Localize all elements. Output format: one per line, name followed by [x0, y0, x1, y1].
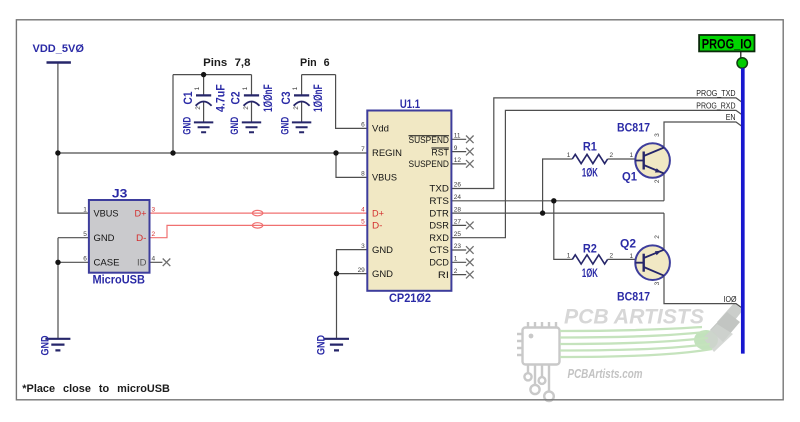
svg-text:GND: GND — [181, 117, 193, 135]
svg-text:Pin 6: Pin 6 — [300, 57, 330, 69]
svg-text:25: 25 — [454, 231, 462, 238]
svg-text:11: 11 — [454, 133, 461, 140]
svg-text:9: 9 — [454, 145, 458, 152]
svg-text:CP21Ø2: CP21Ø2 — [389, 291, 431, 305]
svg-text:12: 12 — [454, 157, 462, 164]
svg-text:1: 1 — [454, 256, 458, 263]
svg-text:26: 26 — [454, 182, 462, 189]
svg-text:C1: C1 — [181, 91, 195, 104]
svg-text:VBUS: VBUS — [94, 208, 119, 218]
svg-text:EN: EN — [726, 112, 736, 122]
svg-text:2: 2 — [609, 253, 613, 260]
svg-text:27: 27 — [454, 219, 462, 226]
svg-text:REGIN: REGIN — [372, 148, 402, 158]
svg-text:TXD: TXD — [429, 184, 449, 194]
svg-text:PCBArtists.com: PCBArtists.com — [568, 367, 643, 381]
svg-text:6: 6 — [83, 256, 87, 263]
svg-text:RI: RI — [438, 270, 449, 280]
svg-text:4.7uF: 4.7uF — [213, 84, 227, 112]
svg-text:RST: RST — [431, 147, 449, 157]
svg-text:1: 1 — [194, 86, 201, 90]
svg-text:DSR: DSR — [429, 221, 449, 231]
svg-text:GND: GND — [94, 233, 116, 243]
svg-text:GND: GND — [39, 335, 51, 355]
svg-text:24: 24 — [454, 194, 462, 201]
svg-text:IOØ: IOØ — [724, 294, 737, 304]
svg-text:J3: J3 — [112, 187, 128, 201]
svg-text:*Place close to microUSB: *Place close to microUSB — [22, 383, 170, 395]
svg-text:5: 5 — [83, 231, 87, 238]
svg-text:GND: GND — [316, 335, 328, 355]
svg-text:GND: GND — [229, 117, 241, 135]
svg-text:2: 2 — [654, 179, 661, 183]
svg-text:4: 4 — [152, 256, 156, 263]
svg-text:1: 1 — [567, 253, 571, 260]
svg-text:GND: GND — [372, 269, 394, 279]
svg-text:Pins 7,8: Pins 7,8 — [203, 57, 250, 69]
svg-text:VDD_5VØ: VDD_5VØ — [33, 43, 85, 55]
svg-text:1ØØnF: 1ØØnF — [311, 84, 325, 112]
svg-text:3: 3 — [654, 133, 661, 137]
svg-text:8: 8 — [361, 171, 365, 178]
svg-text:PROG_RXD: PROG_RXD — [696, 100, 735, 110]
svg-text:28: 28 — [454, 206, 462, 213]
svg-text:PROG_TXD: PROG_TXD — [696, 88, 735, 98]
svg-text:6: 6 — [361, 122, 365, 129]
svg-text:PROG_IO: PROG_IO — [702, 36, 752, 52]
svg-text:3: 3 — [654, 281, 661, 285]
svg-text:1: 1 — [567, 152, 571, 159]
svg-text:RTS: RTS — [429, 196, 449, 206]
svg-text:D-: D- — [372, 221, 383, 231]
svg-text:7: 7 — [361, 146, 365, 153]
svg-text:1: 1 — [629, 152, 633, 159]
svg-text:5: 5 — [361, 219, 365, 226]
svg-text:1ØØnF: 1ØØnF — [261, 84, 275, 112]
svg-text:BC817: BC817 — [617, 121, 650, 135]
svg-text:SUSPEND: SUSPEND — [409, 135, 450, 145]
svg-text:D+: D+ — [372, 208, 384, 218]
svg-text:R2: R2 — [583, 242, 597, 256]
svg-text:Q1: Q1 — [622, 169, 637, 183]
svg-text:DCD: DCD — [429, 258, 449, 268]
svg-text:2: 2 — [654, 235, 661, 239]
svg-text:C3: C3 — [279, 91, 293, 104]
svg-text:2: 2 — [454, 268, 458, 275]
svg-text:ID: ID — [137, 258, 147, 268]
svg-text:BC817: BC817 — [617, 290, 650, 304]
svg-text:MicroUSB: MicroUSB — [92, 272, 145, 286]
svg-text:1: 1 — [83, 206, 87, 213]
svg-text:1ØK: 1ØK — [582, 166, 598, 180]
svg-text:CTS: CTS — [429, 245, 449, 255]
svg-text:C2: C2 — [229, 91, 243, 104]
svg-text:2: 2 — [243, 106, 250, 110]
svg-text:2: 2 — [152, 231, 156, 238]
svg-text:1: 1 — [242, 86, 249, 90]
svg-text:2: 2 — [609, 152, 613, 159]
svg-text:D-: D- — [136, 233, 147, 243]
svg-text:1ØK: 1ØK — [582, 266, 598, 280]
svg-text:Vdd: Vdd — [372, 124, 389, 134]
svg-text:R1: R1 — [583, 140, 597, 154]
svg-text:D+: D+ — [135, 208, 147, 218]
svg-text:CASE: CASE — [94, 258, 120, 268]
svg-text:DTR: DTR — [429, 208, 449, 218]
svg-text:GND: GND — [372, 245, 394, 255]
svg-text:23: 23 — [454, 243, 462, 250]
svg-text:RXD: RXD — [429, 233, 449, 243]
svg-text:PCB ARTISTS: PCB ARTISTS — [564, 306, 704, 329]
svg-text:VBUS: VBUS — [372, 173, 397, 183]
svg-text:U1.1: U1.1 — [400, 97, 420, 111]
svg-text:3: 3 — [361, 243, 365, 250]
svg-text:SUSPEND: SUSPEND — [409, 159, 450, 169]
svg-text:4: 4 — [361, 206, 365, 213]
svg-text:29: 29 — [358, 267, 366, 274]
svg-text:Q2: Q2 — [620, 237, 636, 251]
svg-text:GND: GND — [279, 117, 291, 135]
svg-text:3: 3 — [152, 206, 156, 213]
svg-text:2: 2 — [195, 106, 202, 110]
svg-text:1: 1 — [292, 86, 299, 90]
svg-text:1: 1 — [629, 253, 633, 260]
svg-text:2: 2 — [293, 106, 300, 110]
